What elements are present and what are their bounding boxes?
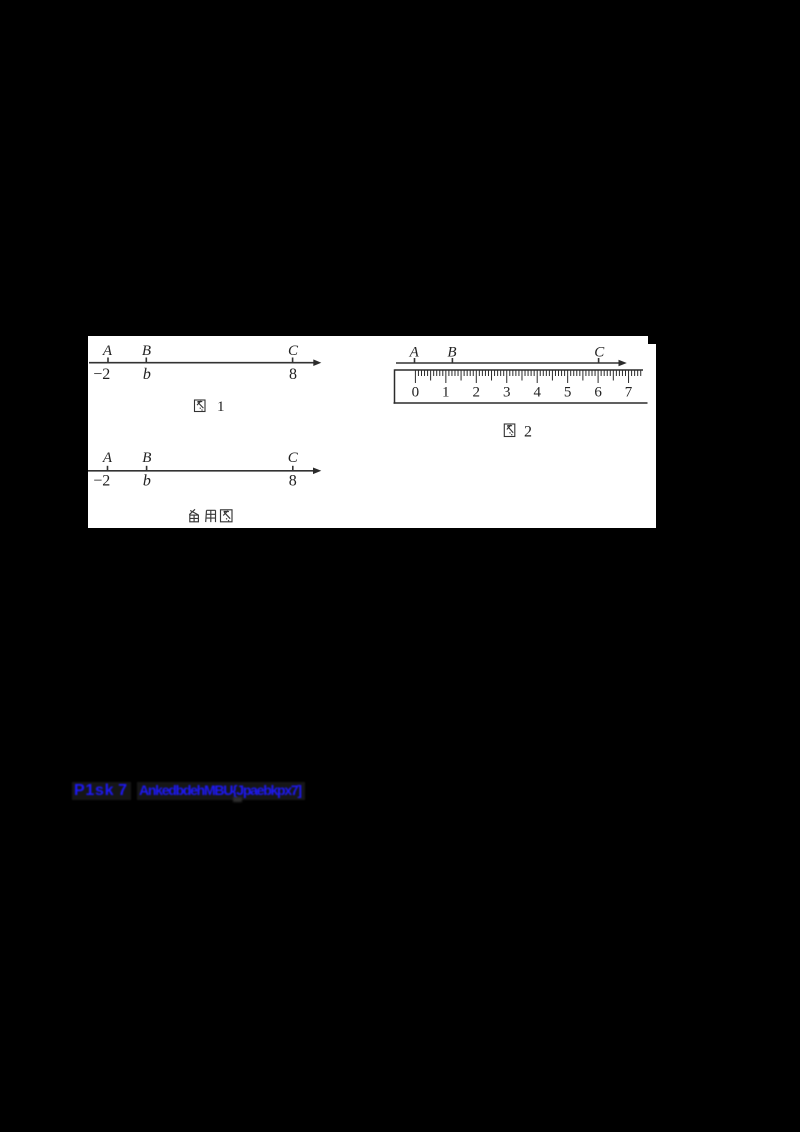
ruler numbers bbox=[412, 385, 633, 401]
svg-text:A: A bbox=[102, 343, 113, 359]
svg-text:8: 8 bbox=[289, 473, 297, 490]
caption glyph 图 (fig2) bbox=[504, 424, 515, 437]
glyph yong bbox=[206, 510, 216, 522]
node fig1 tick B bbox=[145, 358, 147, 363]
svg-text:C: C bbox=[594, 345, 605, 361]
fig1 arrowhead bbox=[313, 359, 321, 366]
svg-text:−2: −2 bbox=[93, 473, 110, 490]
node fig2 tick A bbox=[414, 358, 416, 363]
svg-text:5: 5 bbox=[564, 385, 572, 401]
ruler ticks bbox=[415, 370, 640, 383]
blue link chunk 1 bbox=[72, 782, 131, 800]
svg-text:A: A bbox=[409, 345, 420, 361]
fig1 labels bbox=[93, 343, 632, 490]
svg-text:C: C bbox=[288, 343, 299, 359]
caption 备用图 bbox=[189, 509, 232, 522]
svg-text:2: 2 bbox=[524, 424, 532, 441]
svg-text:6: 6 bbox=[594, 385, 602, 401]
svg-text:0: 0 bbox=[412, 385, 420, 401]
svg-text:b: b bbox=[143, 366, 151, 383]
white figure panel (top strip, narrower) bbox=[88, 336, 648, 346]
glyph tu bbox=[221, 510, 233, 522]
svg-text:B: B bbox=[142, 343, 151, 359]
node fig2 tick B bbox=[451, 358, 453, 363]
svg-text:3: 3 bbox=[503, 385, 511, 401]
node fig3 tick B bbox=[146, 466, 148, 471]
white figure panel (lower main rect) bbox=[88, 344, 656, 528]
fig3 arrowhead bbox=[313, 468, 321, 475]
svg-text:4: 4 bbox=[533, 385, 541, 401]
svg-text:2: 2 bbox=[473, 385, 481, 401]
node fig3 tick C bbox=[292, 466, 294, 471]
svg-text:A: A bbox=[102, 450, 113, 466]
svg-text:7: 7 bbox=[625, 385, 633, 401]
node fig1 tick A bbox=[107, 358, 109, 363]
fig2 arrowhead bbox=[619, 360, 627, 367]
svg-text:B: B bbox=[142, 450, 151, 466]
svg-text:B: B bbox=[447, 345, 456, 361]
descender blob under blue text bbox=[233, 797, 242, 802]
wire fig2 axis bbox=[396, 362, 620, 364]
svg-text:1: 1 bbox=[217, 399, 225, 415]
node fig2 tick C bbox=[598, 358, 600, 363]
node fig1 tick C bbox=[292, 358, 294, 363]
blue link chunk 2 bbox=[137, 782, 305, 800]
caption glyph 图 (fig1) bbox=[195, 400, 206, 412]
wire fig3 axis bbox=[88, 470, 314, 472]
svg-text:1: 1 bbox=[442, 385, 450, 401]
node fig3 tick A bbox=[107, 466, 109, 471]
svg-text:b: b bbox=[143, 473, 151, 490]
svg-text:8: 8 bbox=[289, 366, 297, 383]
blue watermark text bbox=[72, 782, 305, 800]
wire fig1 axis bbox=[89, 362, 315, 364]
svg-text:C: C bbox=[288, 450, 299, 466]
svg-text:−2: −2 bbox=[93, 366, 110, 383]
glyph bei bbox=[189, 509, 198, 522]
ruler body bbox=[394, 369, 648, 403]
